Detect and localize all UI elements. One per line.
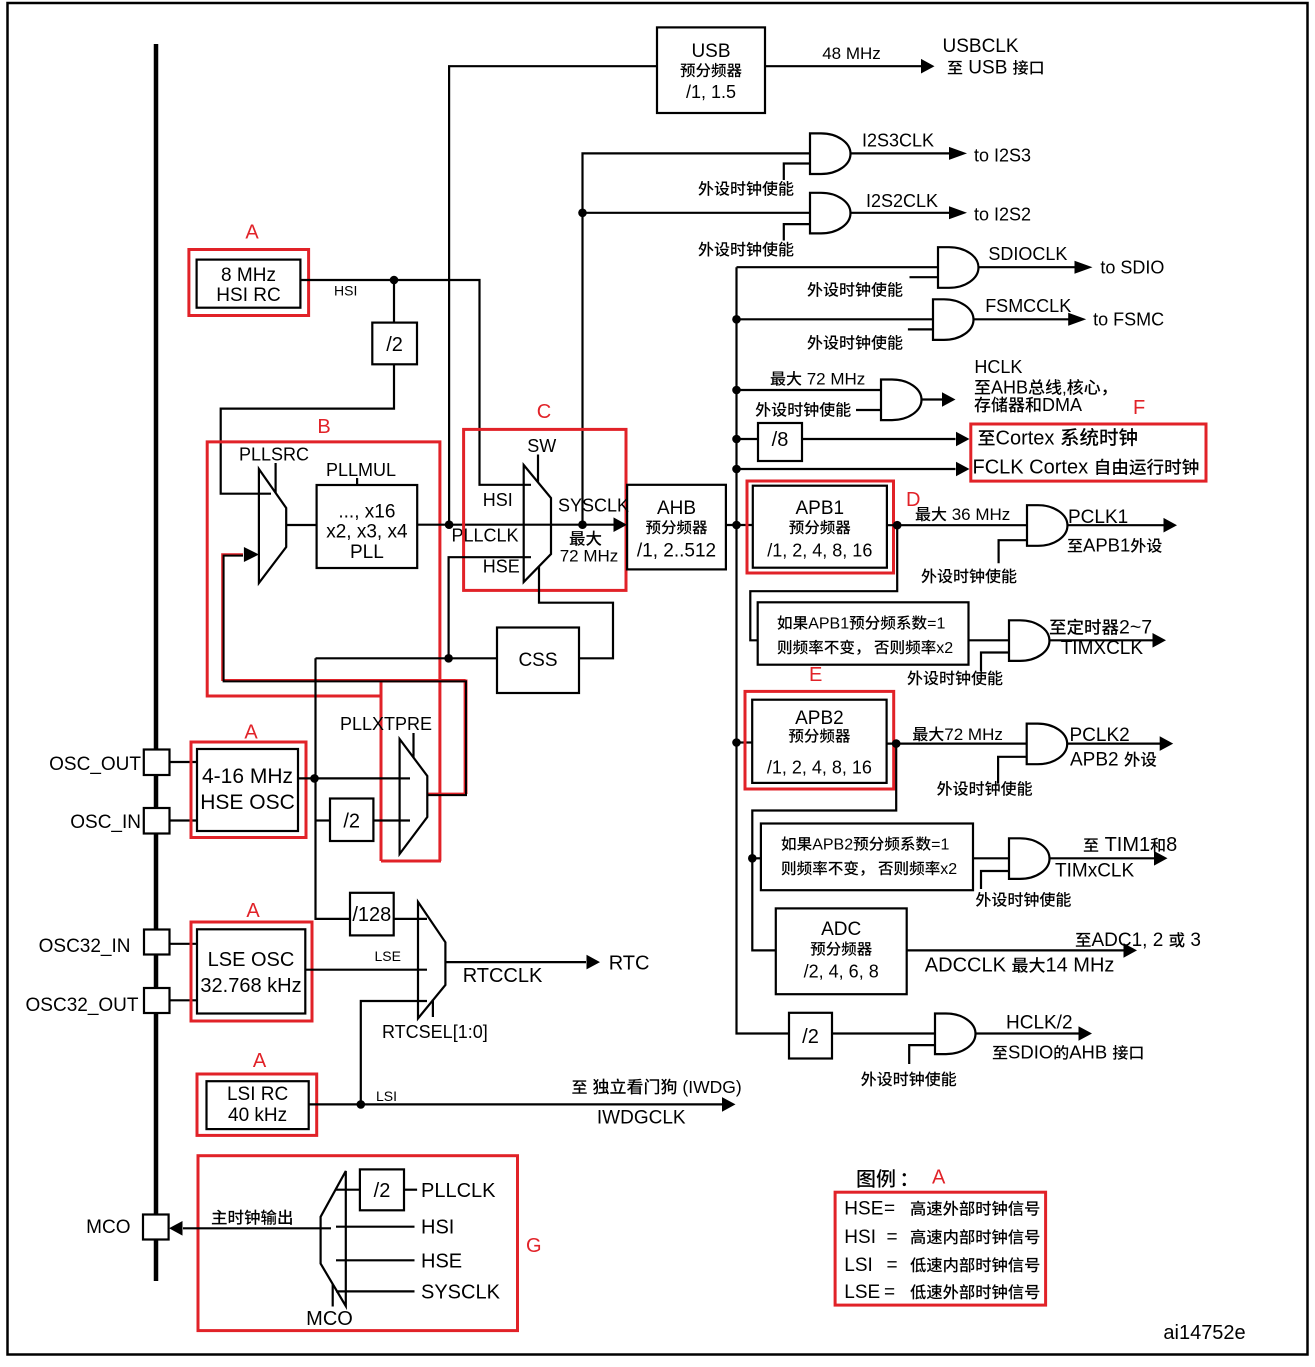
svg-text:HSE: HSE (483, 557, 520, 577)
svg-text:=: = (887, 1255, 898, 1276)
arrow MCO (169, 1221, 183, 1236)
wire HCLK2 enable hook (909, 1045, 935, 1064)
arrow PCLK1 (1164, 518, 1178, 533)
arrow RTC (587, 955, 601, 970)
svg-text:32.768 kHz: 32.768 kHz (200, 975, 301, 997)
wire SYSCLK input MCO (336, 1290, 415, 1292)
svg-text:/2: /2 (343, 811, 360, 833)
svg-text:MCO: MCO (306, 1308, 353, 1330)
svg-text:A: A (244, 722, 258, 744)
svg-text:TIMxCLK: TIMxCLK (1055, 861, 1135, 882)
wire HSE output (298, 777, 400, 779)
box F Cortex clocks (971, 424, 1206, 481)
svg-text:to FSMC: to FSMC (1093, 310, 1164, 330)
block PLL multiplier (317, 485, 418, 568)
arrow to timers 2..7 (1153, 633, 1167, 648)
label to APB1 peripherals (1068, 539, 1082, 552)
wire FSMC enable stub (908, 328, 933, 330)
wire SYSCLK riser to I2S gates (583, 153, 811, 524)
svg-text:8 MHz: 8 MHz (221, 265, 276, 286)
and-gate SDIO (938, 247, 978, 288)
arrow HCLK (942, 392, 956, 407)
junction SYSCLK (578, 520, 587, 529)
wire APB1 output max 36 MHz (887, 524, 1027, 526)
svg-text:/2, 4, 6, 8: /2, 4, 6, 8 (804, 962, 879, 982)
svg-text:HCLK: HCLK (974, 357, 1022, 377)
box legend (835, 1192, 1046, 1305)
block APB2 frequency rule (761, 824, 973, 891)
svg-text:USBCLK: USBCLK (943, 36, 1019, 57)
wire /2 to HCLK2 gate (832, 1032, 935, 1034)
junction CSS branch (444, 654, 453, 663)
wire LSI / IWDGCLK (309, 1103, 722, 1105)
svg-text:/128: /128 (352, 904, 391, 926)
wire SYSCLK output (551, 524, 614, 526)
wire HCLK output (922, 398, 943, 400)
svg-text:A: A (932, 1167, 946, 1189)
svg-text:ai14752e: ai14752e (1163, 1322, 1245, 1344)
svg-text:LSI: LSI (376, 1088, 397, 1104)
and-gate TIMxCLK (1009, 838, 1050, 879)
svg-text:3: 3 (1190, 930, 1201, 951)
svg-text:72 MHz: 72 MHz (560, 547, 619, 566)
arrow FCLK (956, 462, 970, 477)
wire MCO output (183, 1227, 331, 1229)
svg-text:SDIOCLK: SDIOCLK (988, 244, 1067, 264)
wire TIMXCLK output (1050, 639, 1153, 641)
svg-text:AHB: AHB (991, 378, 1028, 398)
block APB1 frequency rule (758, 602, 969, 664)
junction /8 branch (732, 435, 741, 444)
divider /2 MCO (360, 1169, 404, 1210)
wire doubler to TIMXCLK gate (969, 639, 1010, 641)
arrow USBCLK (921, 59, 935, 74)
svg-text:APB1: APB1 (808, 616, 849, 633)
wire OSC_OUT to HSE (170, 761, 197, 763)
svg-text:ADC: ADC (821, 919, 861, 940)
svg-text:HSI: HSI (483, 490, 513, 510)
wire HSE to CSS (316, 657, 498, 659)
svg-text:OSC_OUT: OSC_OUT (49, 754, 141, 775)
svg-text:IWDGCLK: IWDGCLK (597, 1108, 686, 1129)
divider /128 (350, 893, 394, 936)
wire TIMXCLK enable hook (981, 653, 1009, 672)
svg-text:RTCSEL[1:0]: RTCSEL[1:0] (382, 1022, 488, 1042)
svg-text:SYSCLK: SYSCLK (558, 495, 629, 515)
svg-text:APB2: APB2 (812, 837, 853, 854)
label main clock output (212, 1210, 227, 1225)
wire to /8 divider (737, 438, 759, 440)
junction APB2 input (732, 738, 741, 747)
divider /8 (758, 423, 802, 461)
wire I2S2 enable hook (784, 224, 810, 240)
svg-text:/2: /2 (802, 1026, 819, 1048)
svg-text:E: E (809, 664, 822, 686)
svg-text:=: = (884, 1199, 895, 1220)
svg-text:=1: =1 (927, 616, 945, 633)
pad OSC_IN (144, 808, 170, 834)
wire FCLK (737, 468, 956, 470)
svg-text:HSI: HSI (844, 1227, 876, 1248)
box C system clock switch (464, 429, 626, 590)
junction I2S2 branch (578, 209, 587, 218)
svg-text:TIMXCLK: TIMXCLK (1061, 638, 1144, 659)
svg-text:CSS: CSS (518, 650, 557, 671)
block AHB prescaler (627, 485, 726, 570)
wire /8 to Cortex system timer (802, 438, 956, 440)
svg-text:HSE OSC: HSE OSC (200, 791, 295, 814)
block APB1 prescaler (747, 481, 894, 573)
wire PLLXTPRE select stub (412, 733, 414, 758)
junction AHB output (732, 521, 741, 530)
wire PLLCLK through SW mux (524, 524, 551, 526)
svg-text:/1, 1.5: /1, 1.5 (686, 82, 736, 102)
wire HSE into SW mux (449, 557, 531, 658)
wire OSC_IN to HSE (170, 819, 197, 821)
pad OSC32_IN (144, 930, 170, 955)
svg-text:OSC_IN: OSC_IN (70, 812, 141, 833)
svg-text:48 MHz: 48 MHz (822, 44, 881, 63)
svg-text:HCLK/2: HCLK/2 (1006, 1013, 1073, 1034)
wire HSE to /2 divider (316, 819, 331, 821)
block CSS clock security system (497, 628, 579, 694)
svg-text:A: A (246, 900, 260, 922)
svg-text:F: F (1133, 397, 1145, 419)
svg-text:/1, 2..512: /1, 2..512 (637, 541, 716, 562)
svg-text:APB1: APB1 (796, 498, 845, 519)
junction HSI to /2 (390, 276, 399, 285)
wire CSS output to SW mux (539, 566, 613, 658)
label to SDIO AHB interface (993, 1046, 1007, 1059)
svg-text:DMA: DMA (1042, 395, 1082, 415)
svg-text:C: C (537, 401, 551, 423)
wire PCLK1 output (1068, 524, 1165, 526)
svg-text:=: = (884, 1282, 895, 1303)
svg-text:4-16 MHz: 4-16 MHz (202, 765, 293, 788)
divider /2 HSI (372, 323, 417, 365)
svg-text:I2S2CLK: I2S2CLK (866, 191, 938, 211)
svg-text:MCO: MCO (86, 1217, 130, 1238)
and-gate I2S3 (810, 133, 851, 174)
wire PLLCLK to SW mux (417, 524, 524, 526)
arrow HCLK/2 (1079, 1026, 1093, 1041)
svg-text:PCLK2: PCLK2 (1070, 725, 1130, 746)
and-gate FSMC (933, 299, 974, 340)
and-gate HCLK2 (935, 1014, 975, 1055)
junction PLLCLK (445, 520, 454, 529)
svg-text:HSI: HSI (334, 283, 357, 299)
svg-text:/2: /2 (386, 334, 403, 356)
svg-text:Cortex: Cortex (996, 428, 1055, 450)
block APB2 prescaler (745, 691, 894, 789)
svg-text:RTCCLK: RTCCLK (463, 965, 543, 987)
svg-text:ADC1, 2: ADC1, 2 (1092, 930, 1164, 951)
wire TIMxCLK enable hook (981, 871, 1009, 889)
svg-text:14 MHz: 14 MHz (1046, 955, 1115, 977)
svg-text:PCLK1: PCLK1 (1068, 507, 1128, 528)
and-gate PCLK1 (1027, 505, 1067, 546)
wire PLLMUL select stub (356, 478, 358, 485)
wire to HCLK gate max 72 MHz (737, 389, 882, 391)
svg-text:FSMCCLK: FSMCCLK (985, 296, 1071, 316)
wire I2S3 enable hook (784, 164, 810, 181)
wire SW select stub (537, 455, 539, 483)
svg-text:LSI: LSI (844, 1255, 873, 1276)
svg-text:TIM1: TIM1 (1105, 834, 1151, 856)
svg-text:=1: =1 (931, 837, 949, 854)
svg-text:PLL: PLL (350, 542, 384, 563)
junction FSMC branch (732, 315, 741, 324)
mux SW system clock (524, 465, 551, 582)
junction APB2 output (892, 739, 901, 748)
wire to I2S2 gate (583, 212, 811, 214)
box PLLXTPRE group (381, 681, 466, 861)
wire HSE/2 to PLLXTPRE mux (373, 819, 410, 821)
arrow to ADC123 (1124, 943, 1138, 958)
pad MCO (143, 1215, 169, 1240)
wire HSE input MCO (336, 1259, 415, 1261)
box B PLL group (207, 442, 440, 861)
wire HSI/2 to PLLSRC mux (221, 364, 394, 493)
svg-text:PLLMUL: PLLMUL (326, 460, 396, 480)
svg-text:FCLK Cortex: FCLK Cortex (973, 457, 1089, 479)
svg-text:72 MHz: 72 MHz (944, 725, 1003, 744)
junction HSE (310, 774, 319, 783)
arrow SYSCLK into AHB prescaler (614, 517, 628, 532)
and-gate I2S2 (810, 193, 850, 234)
wire PLLCLK to USB prescaler (449, 66, 657, 525)
svg-text:OSC32_OUT: OSC32_OUT (26, 995, 139, 1016)
block HSE OSC 4-16 MHz (191, 742, 306, 838)
wire PLLXTPRE feedback to PLLSRC (red+black pair) (222, 554, 464, 793)
wire PCLK1 enable hook (999, 540, 1027, 563)
svg-text:PLLCLK: PLLCLK (421, 1180, 496, 1202)
wire RTCSEL select stub (432, 1000, 434, 1018)
svg-text:PLLCLK: PLLCLK (452, 526, 519, 546)
svg-text:HSE: HSE (844, 1199, 883, 1220)
svg-text:USB: USB (691, 41, 730, 62)
svg-text:/8: /8 (772, 429, 789, 451)
wire HSE riser to CSS and /128 (316, 658, 351, 919)
svg-text:LSI RC: LSI RC (227, 1084, 288, 1105)
svg-text:SDIO: SDIO (1008, 1042, 1053, 1063)
svg-text:G: G (526, 1235, 542, 1257)
svg-text:ADCCLK: ADCCLK (925, 955, 1007, 977)
svg-text:x2: x2 (940, 861, 957, 878)
svg-text:72 MHz: 72 MHz (807, 370, 866, 389)
wire /128 to RTC mux (394, 918, 427, 920)
svg-text:AHB: AHB (1069, 1042, 1107, 1063)
wire MCO select stub (332, 1284, 334, 1307)
wire into APB2 doubler box (752, 857, 761, 859)
wire OSC32_OUT to LSE (170, 999, 198, 1001)
svg-text:8: 8 (1166, 834, 1177, 856)
arrow PCLK2 (1160, 736, 1174, 751)
wire APB2 to frequency doubler and ADC (752, 744, 896, 951)
svg-text:x2, x3, x4: x2, x3, x4 (326, 522, 408, 543)
svg-text:B: B (317, 416, 330, 438)
svg-text:APB2: APB2 (795, 708, 844, 729)
arrow to I2S2 (949, 206, 967, 219)
box G MCO group (198, 1156, 518, 1331)
wire HSI to /2 divider (393, 280, 395, 323)
svg-text:40 kHz: 40 kHz (228, 1105, 287, 1126)
label legend title (858, 1170, 875, 1188)
svg-text:OSC32_IN: OSC32_IN (39, 936, 131, 957)
svg-text:USB: USB (968, 58, 1007, 79)
wire HSI input MCO (336, 1226, 415, 1228)
wire HCLK riser trunk (737, 267, 790, 1033)
arrow IWDG (722, 1097, 736, 1112)
wire RTCCLK to RTC (445, 961, 586, 963)
wire SDIOCLK output (979, 266, 1080, 268)
svg-text:PLLXTPRE: PLLXTPRE (340, 714, 432, 734)
svg-text:AHB: AHB (657, 498, 696, 519)
svg-text:/2: /2 (374, 1180, 391, 1202)
mux MCO (321, 1171, 346, 1306)
wire PLLSRC select stub (275, 463, 277, 493)
wire USB prescaler output 48 MHz (765, 65, 922, 67)
wire PLLSRC mux to PLL (286, 524, 316, 526)
arrow to Cortex clock (956, 432, 970, 447)
svg-text:APB1: APB1 (1083, 535, 1130, 556)
svg-text:APB2: APB2 (1070, 750, 1119, 771)
wire SDIO enable stub (910, 276, 939, 278)
arrow to FSMC (1068, 313, 1086, 326)
block ADC prescaler (776, 908, 907, 994)
wire APB2 output max 72 MHz (887, 742, 1027, 744)
mux RTCSEL (418, 902, 445, 1019)
svg-text:A: A (245, 222, 259, 244)
wire HSE stub into PLLXTPRE (400, 777, 410, 779)
wire doubler to TIMxCLK gate (973, 857, 1009, 859)
svg-text:HSE: HSE (421, 1251, 462, 1273)
label to independent watchdog (572, 1080, 586, 1093)
wire I2S2CLK output (851, 212, 956, 214)
block LSI RC 40 kHz (197, 1074, 317, 1135)
svg-text:to I2S2: to I2S2 (974, 205, 1031, 225)
svg-text:/1, 2, 4, 8, 16: /1, 2, 4, 8, 16 (767, 758, 872, 778)
svg-text:PLLSRC: PLLSRC (239, 445, 309, 465)
wire LSE to RTC mux (305, 969, 427, 971)
divider /2 HCLK (789, 1013, 832, 1059)
junction HCLK branch (732, 386, 741, 395)
wire AHB to APB1 (726, 524, 753, 526)
block USB prescaler (657, 27, 765, 113)
wire HCLK2 output (976, 1032, 1079, 1034)
svg-text:I2S3CLK: I2S3CLK (862, 131, 934, 151)
and-gate PCLK2 (1027, 724, 1068, 765)
svg-text:x2: x2 (936, 640, 953, 657)
svg-text:LSE: LSE (375, 948, 401, 964)
wire ADCCLK output (907, 949, 1124, 951)
pad OSC_OUT (144, 750, 170, 776)
wire to SDIO gate (737, 266, 939, 268)
divider /2 HSE (330, 799, 373, 842)
wire to FSMC gate (737, 318, 934, 320)
wire LSI to RTC mux (361, 1001, 427, 1104)
arrow to TIM1 and 8 (1154, 851, 1168, 866)
svg-text:2~7: 2~7 (1119, 617, 1152, 639)
svg-text:to I2S3: to I2S3 (974, 146, 1031, 166)
wire pin-header vertical bus line (154, 44, 159, 1281)
wire OSC32_IN to LSE (170, 943, 198, 945)
svg-text:=: = (887, 1227, 898, 1248)
junction doubler branch (748, 854, 757, 863)
wire APB1 to frequency doubler box (750, 525, 897, 640)
svg-text:RTC: RTC (609, 953, 650, 975)
svg-text:SW: SW (527, 436, 556, 456)
pad OSC32_OUT (144, 988, 170, 1013)
svg-text:LSE: LSE (844, 1282, 880, 1303)
svg-text:..., x16: ..., x16 (338, 501, 395, 522)
svg-text:HSI: HSI (421, 1217, 454, 1239)
wire MCO mux to /2 (336, 1189, 360, 1191)
svg-text:(IWDG): (IWDG) (682, 1077, 741, 1097)
wire /2 to PLLCLK label (404, 1189, 417, 1191)
junction APB1 output (893, 521, 902, 530)
block HSI RC 8 MHz (189, 250, 309, 316)
wire TIMxCLK output (1050, 857, 1155, 859)
arrow to SDIO (1075, 261, 1093, 274)
wire AHB riser to APB2 (737, 741, 753, 743)
svg-text:/1, 2, 4, 8, 16: /1, 2, 4, 8, 16 (767, 541, 872, 561)
svg-text:HSI RC: HSI RC (216, 285, 280, 306)
wire PCLK2 output (1067, 742, 1160, 744)
arrow PLLSRC input2 (244, 547, 259, 562)
and-gate HCLK (881, 380, 922, 421)
wire FSMCCLK output (974, 318, 1074, 320)
label max 72 MHz (570, 531, 585, 546)
junction LSI (357, 1100, 366, 1109)
svg-text:A: A (253, 1050, 267, 1072)
arrow to I2S3 (949, 147, 967, 160)
wire HSI (300, 280, 531, 485)
svg-text:SYSCLK: SYSCLK (421, 1282, 501, 1304)
svg-text:36 MHz: 36 MHz (952, 505, 1011, 524)
svg-text:to SDIO: to SDIO (1100, 258, 1164, 278)
svg-text:LSE OSC: LSE OSC (208, 949, 295, 971)
block LSE OSC 32.768 kHz (191, 922, 312, 1021)
junction FCLK branch (732, 465, 741, 474)
and-gate TIMXCLK (1009, 620, 1049, 661)
wire HCLK enable stub (856, 409, 881, 411)
wire I2S3CLK output (851, 152, 956, 154)
wire PCLK2 enable hook (998, 757, 1027, 784)
